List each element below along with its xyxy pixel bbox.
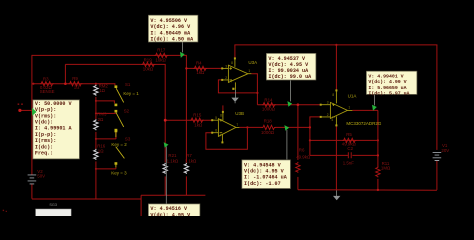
wire: S2 bottom stub to node B (115, 131, 117, 139)
svg-text:V(p-p):: V(p-p): (35, 107, 56, 113)
svg-text:SG3: SG3 (49, 203, 57, 207)
svg-text:1Ω: 1Ω (74, 85, 80, 90)
svg-text:1.1kΩ: 1.1kΩ (167, 158, 179, 163)
wire: R6 bottom to ground rail (297, 177, 299, 190)
svg-text:6: 6 (215, 129, 217, 133)
svg-text:2Ω: 2Ω (98, 117, 104, 122)
wire: node A row to S2 top (96, 112, 116, 114)
svg-text:U3B: U3B (235, 111, 244, 116)
wire: U3B feedback loop (206, 127, 248, 149)
wire: C2 right plate to output riser (352, 154, 378, 156)
svg-text:2: 2 (225, 76, 227, 80)
svg-text:I(dc): 5.97 uA: I(dc): 5.97 uA (368, 91, 409, 97)
svg-text:1: 1 (248, 69, 250, 73)
resistor R17 10k (154, 48, 168, 63)
svg-text:V: 4.94548 V: V: 4.94548 V (244, 162, 282, 168)
wire: probe0 node stub (20, 109, 32, 111)
svg-text:U3A: U3A (248, 60, 257, 65)
switch S1 Key 1 (115, 82, 140, 106)
wire: U1A VEE drop to ground rail (335, 126, 337, 190)
wire: output riser down through R5 C2 rows to R11 (377, 110, 379, 166)
node: junction chain row1 (95, 100, 97, 102)
ground arrow below U3A VEE (231, 90, 238, 103)
wire: node C row to S3 bottom (96, 168, 116, 170)
probe box5 on R19 node (148, 142, 200, 219)
svg-text:R7: R7 (186, 153, 192, 158)
node: junction R11 ground rail (377, 189, 379, 191)
svg-text:V(dc): 4.95 V: V(dc): 4.95 V (150, 213, 191, 216)
svg-text:50V: 50V (37, 174, 45, 179)
svg-text:V: 50.0000 V: V: 50.0000 V (35, 101, 73, 107)
svg-text:4: 4 (331, 118, 333, 122)
op-amp U3A (221, 57, 257, 90)
svg-text:C2: C2 (347, 146, 353, 151)
svg-text:RM3: RM3 (97, 112, 107, 117)
svg-text:1.1kΩ: 1.1kΩ (185, 158, 197, 163)
svg-text:1Ω: 1Ω (99, 88, 105, 93)
node: junction rail-wire3 (32, 83, 34, 85)
node: junction R18 riser (309, 126, 311, 128)
svg-text:V: 4.94516 V: V: 4.94516 V (150, 206, 188, 212)
svg-text:R21: R21 (168, 153, 177, 158)
resistor R3 0.02ohm SENSE (40, 77, 55, 94)
svg-text:R14: R14 (264, 98, 273, 103)
svg-text:Key = 3: Key = 3 (111, 170, 127, 175)
wire: R11 bottom to ground rail (377, 179, 379, 190)
svg-text:4: 4 (219, 134, 221, 138)
wire: R18 row to vertical riser (275, 126, 310, 128)
resistor R11 1M vertical (376, 161, 391, 178)
resistor R9 1ohm (68, 76, 82, 90)
op-amp U1A MC33072ADR2G (320, 89, 382, 126)
svg-text:1000Ω: 1000Ω (261, 130, 275, 135)
svg-text:1kΩ: 1kΩ (194, 123, 203, 128)
svg-text:MC33072ADR2G: MC33072ADR2G (346, 121, 382, 126)
resistor R15 1k (190, 112, 204, 127)
svg-text:I: 4.50449 mA: I: 4.50449 mA (150, 30, 191, 36)
node: junction R14-R6-U1A plus (297, 103, 300, 106)
node: junction chain row2 (95, 112, 97, 114)
svg-text:U1A: U1A (348, 93, 357, 98)
svg-text:R18: R18 (264, 118, 273, 123)
node: junction C2 row right (377, 154, 379, 156)
wire: RM3 to R16 chain segment (95, 132, 97, 150)
wire: U3A plus node vertical to R6 (297, 105, 299, 160)
wire: U1A VCC riser to top rail (335, 45, 337, 90)
svg-text:R6: R6 (299, 147, 305, 152)
wire: U3B output to R18 (239, 126, 262, 128)
svg-text:4: 4 (230, 80, 232, 84)
battery V1 20V (433, 143, 450, 160)
wire: U3A VCC stub to top rail (234, 45, 236, 58)
wire: node A row to S1 bottom (96, 101, 115, 104)
wire: vertical x165 node to R21 (164, 120, 166, 162)
wire: ground rail A (298, 189, 437, 192)
wire: U3B VCC stub (222, 105, 224, 111)
svg-text:R19: R19 (144, 57, 153, 62)
resistor R19 10k (141, 57, 155, 71)
wire: R21 bottom to ground rail (164, 176, 166, 195)
wire: V2 - to rail B (31, 184, 33, 199)
resistor R5 49.9k (342, 132, 357, 147)
ground arrow below rail at U1A VEE column (333, 190, 340, 200)
svg-text:S2: S2 (124, 108, 130, 113)
svg-text:I(dc): -1.07: I(dc): -1.07 (244, 181, 281, 187)
node: junction U3B feedback (246, 126, 248, 128)
wire: sense tap wire2 to R19 (65, 64, 165, 120)
node: junction R17-R4-R7 (185, 67, 187, 69)
wire: sense tap wire1 to R17 and probe (32, 55, 187, 68)
wire: top supply rail +V from U3A VCC to V1 (234, 44, 437, 46)
switch S2 Key 2 (111, 108, 129, 147)
svg-text:R5: R5 (346, 132, 352, 137)
resistor R7 1.1k vertical gray (184, 153, 197, 174)
svg-text:V: 4.99401 V: V: 4.99401 V (368, 73, 403, 79)
svg-text:10kΩ: 10kΩ (143, 66, 154, 71)
node: junction R5 row left (309, 139, 311, 141)
svg-text:8: 8 (332, 93, 334, 97)
svg-text:1000Ω: 1000Ω (262, 106, 276, 111)
resistor R18 1000ohm (261, 118, 276, 134)
svg-text:V(dc): 4.96 V: V(dc): 4.96 V (150, 24, 191, 30)
svg-text:Key = 1: Key = 1 (123, 91, 139, 96)
svg-text:5: 5 (215, 116, 217, 120)
svg-text:1MΩ: 1MΩ (381, 166, 391, 171)
probe box2 on R14 node (266, 53, 316, 106)
wire: vertical x186 from R4 node down through R7 (185, 68, 187, 162)
svg-text:I(rms):: I(rms): (35, 138, 56, 144)
svg-text:SENSE: SENSE (40, 89, 55, 94)
svg-text:1kΩ: 1kΩ (196, 70, 205, 75)
wire: RM2 to RM3 chain segment (95, 97, 97, 120)
wire: R16 bottom to node C (95, 161, 97, 198)
svg-text:20V: 20V (441, 148, 449, 153)
probe box1 on R17 node (148, 15, 198, 58)
resistor R4 1k (193, 61, 207, 75)
wire: R15 row into U3B plus input (165, 119, 212, 121)
node: junction U1A VCC rail (335, 44, 337, 46)
svg-text:R4: R4 (196, 61, 202, 66)
svg-text:R3: R3 (43, 77, 49, 82)
probe box3 on U1A output (366, 71, 417, 111)
svg-text:I: 4.99901 A: I: 4.99901 A (35, 126, 73, 132)
wire: riser x309 to U1A minus input (310, 117, 321, 128)
svg-text:I: -1.07464 uA: I: -1.07464 uA (244, 175, 288, 181)
svg-text:1: 1 (348, 106, 350, 110)
switch S3 Key 3 (111, 130, 131, 176)
svg-text:V: 4.95506 V: V: 4.95506 V (150, 18, 188, 24)
node: junction chain row4 (95, 168, 97, 170)
svg-text:7: 7 (236, 123, 238, 127)
partially visible dialog box at bottom edge (36, 209, 71, 216)
capacitor C2 1.5nF (343, 146, 355, 165)
node: junction U3A feedback (256, 92, 258, 94)
svg-text:V(rms):: V(rms): (35, 113, 56, 119)
wire: V2 loop bottom rail B (32, 198, 141, 200)
svg-text:8: 8 (220, 114, 222, 118)
wire: R5 feedback row (310, 139, 378, 141)
svg-text:I(dc): 4.50 mA: I(dc): 4.50 mA (150, 37, 194, 43)
resistor RM3 2ohm vertical gray (94, 112, 107, 130)
probe box4 on R18 node (242, 125, 291, 188)
node: junction chain row3 (95, 138, 97, 140)
node: junction wire3-RM2 (95, 83, 97, 85)
wire: mid ground bus for R21 R7 (141, 194, 205, 196)
wire: R7 bottom to ground rail (185, 176, 187, 195)
svg-text:V(dc): 4.99 V: V(dc): 4.99 V (368, 79, 406, 85)
svg-text:I(p-p):: I(p-p): (35, 132, 56, 138)
resistor RM2 1ohm vertical gray (94, 83, 109, 95)
wire: main current path wire3 V2 rail to switch S1 (32, 84, 115, 86)
svg-text:49.9kΩ: 49.9kΩ (296, 155, 311, 160)
svg-text:I(dc):: I(dc): (35, 144, 53, 150)
svg-text:3: 3 (225, 64, 227, 68)
wire: U1A output row (352, 109, 378, 111)
svg-text:R9: R9 (72, 76, 78, 81)
svg-text:S1: S1 (125, 82, 131, 87)
svg-text:Key = 2: Key = 2 (111, 142, 127, 147)
node: junction R3-R9 sense tap (64, 82, 67, 85)
node: junction R19-R15-R21 (164, 119, 167, 122)
wire: C2 feedback row (310, 154, 348, 156)
wire: left rail from wire1 down to V2 + (31, 55, 33, 175)
wire: U3A feedback loop (218, 80, 257, 93)
svg-text:1.5nF: 1.5nF (343, 161, 355, 166)
op-amp U3B (211, 111, 244, 143)
probe measurement box V 50.0000 on V2 (32, 100, 80, 159)
wire: riser x309 down to feedback rows (309, 127, 311, 155)
wire: R14 row to U1A plus input (257, 104, 320, 106)
svg-text:3: 3 (327, 101, 329, 105)
svg-text:V(dc): 4.95 V: V(dc): 4.95 V (244, 169, 285, 175)
node: probe0 junction dot (18, 109, 21, 112)
resistor R16 1ohm vertical gray (94, 144, 106, 160)
svg-text:2: 2 (327, 113, 329, 117)
wire: wire2 stub down to main current path (64, 64, 66, 83)
svg-text:R15: R15 (193, 112, 202, 117)
svg-text:Freq.:: Freq.: (35, 151, 53, 157)
resistor R14 1000ohm (262, 98, 276, 112)
svg-text:R17: R17 (157, 48, 166, 53)
battery V2 50V (28, 169, 46, 184)
svg-text:1Ω: 1Ω (98, 148, 104, 153)
resistor R6 49.9k vertical (296, 147, 311, 173)
svg-text:V(dc):: V(dc): (35, 120, 53, 126)
svg-text:S3: S3 (125, 137, 131, 142)
svg-text:I: 5.96659 uA: I: 5.96659 uA (368, 85, 406, 91)
svg-text:10kΩ: 10kΩ (155, 57, 166, 62)
svg-text:I(dc): 99.0 uA: I(dc): 99.0 uA (268, 74, 312, 80)
wire: R4 row into U3A plus input (186, 67, 222, 69)
wire: U3A output to R14 drop (251, 74, 257, 105)
wire: node B row to S3 top (96, 138, 116, 140)
node: junction R5 row right (377, 139, 379, 141)
resistor R21 1.1k vertical gray (163, 153, 179, 174)
wire: V1 bottom stub to ground rail (436, 160, 438, 190)
svg-text:8: 8 (231, 61, 233, 65)
wire: V1 positive rail drop on right edge (436, 45, 438, 150)
wire: rail B drop off page bottom (140, 195, 142, 216)
